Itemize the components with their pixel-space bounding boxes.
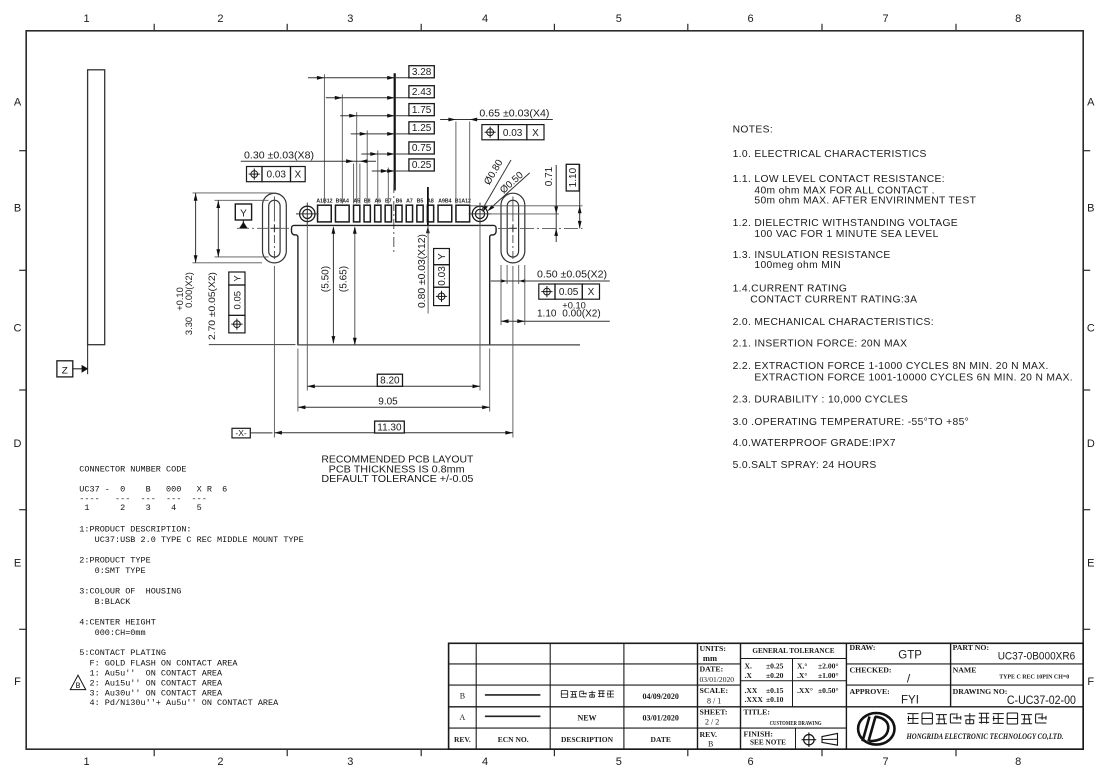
- svg-text:DATE:: DATE:: [700, 665, 724, 674]
- dimension 0.71 arrows: [554, 206, 558, 214]
- svg-text:HONGRIDA ELECTRONIC TECHNOLOGY: HONGRIDA ELECTRONIC TECHNOLOGY CO,LTD.: [906, 732, 1064, 741]
- dimension 0.50 line: [491, 280, 610, 282]
- svg-text:FINISH:: FINISH:: [744, 729, 773, 738]
- shield slot left outer oval: [263, 193, 287, 263]
- svg-text:+0.10: +0.10: [175, 287, 185, 311]
- dimension 1.25 arrows: [360, 132, 368, 136]
- dimension 3.28 box: [409, 66, 434, 78]
- dimension 11.30 line: [274, 432, 513, 434]
- svg-text:Y: Y: [240, 208, 247, 219]
- tolerance table lines: [741, 658, 847, 660]
- svg-text:±0.50°: ±0.50°: [818, 686, 839, 695]
- svg-text:0.80 ±0.03(X12): 0.80 ±0.03(X12): [417, 234, 428, 308]
- dimension 8.20 line: [307, 385, 480, 387]
- dimension 1.10 arrows: [578, 206, 582, 214]
- svg-text:ECN NO.: ECN NO.: [498, 735, 529, 744]
- finish target symbol: [804, 735, 814, 745]
- dimension 1.75 arrows: [349, 114, 357, 118]
- svg-text:±1.00°: ±1.00°: [818, 671, 839, 680]
- svg-text:5:CONTACT PLATING: 5:CONTACT PLATING: [79, 648, 166, 658]
- svg-text:2.0. MECHANICAL CHARACTERISTIC: 2.0. MECHANICAL CHARACTERISTICS:: [733, 317, 934, 328]
- dimension 9.05 extension lines: [297, 349, 299, 412]
- svg-text:CUSTOMER DRAWING: CUSTOMER DRAWING: [770, 720, 822, 727]
- svg-text:0.00(X2): 0.00(X2): [184, 272, 194, 308]
- svg-text:REV.: REV.: [700, 730, 717, 739]
- svg-text:2.3. DURABILITY : 10,000 CYCLE: 2.3. DURABILITY : 10,000 CYCLES: [733, 394, 909, 405]
- dimension 0.80 leader line: [427, 226, 429, 314]
- svg-text:±0.10: ±0.10: [766, 695, 784, 704]
- revision flag triangle B: [70, 675, 85, 689]
- svg-text:2:PRODUCT TYPE: 2:PRODUCT TYPE: [79, 555, 150, 565]
- title block horizontal lines: [449, 663, 741, 665]
- svg-text:B: B: [14, 203, 21, 215]
- svg-text:1:PRODUCT DESCRIPTION:: 1:PRODUCT DESCRIPTION:: [79, 525, 191, 535]
- dimension 0.25 box: [409, 159, 434, 171]
- svg-text:B: B: [76, 682, 81, 691]
- svg-text:NEW: NEW: [577, 714, 596, 723]
- svg-text:A: A: [1087, 97, 1095, 109]
- svg-text:F: F: [14, 676, 21, 688]
- svg-text:F: GOLD FLASH ON CONTACT AREA: F: GOLD FLASH ON CONTACT AREA: [79, 659, 238, 669]
- pad A7: [406, 205, 412, 222]
- svg-text:2.2. EXTRACTION FORCE 1-1000 C: 2.2. EXTRACTION FORCE 1-1000 CYCLES 8N M…: [733, 361, 1049, 372]
- svg-text:B: B: [460, 691, 465, 700]
- svg-text:-X-: -X-: [235, 428, 247, 438]
- svg-text:0.03: 0.03: [503, 128, 523, 139]
- svg-text:2.70 ±0.05(X2): 2.70 ±0.05(X2): [207, 272, 217, 340]
- svg-text:D: D: [1087, 438, 1095, 450]
- pad B6: [396, 205, 402, 222]
- dimension 0.25 extension line: [387, 168, 389, 204]
- dimension 0.30 line: [241, 160, 376, 162]
- svg-text:5: 5: [616, 13, 622, 25]
- dimension 0.65 line: [440, 119, 553, 121]
- dimension 5.65 line: [354, 228, 356, 345]
- pad A5: [354, 205, 360, 222]
- svg-text:E: E: [14, 558, 21, 570]
- svg-text:(5.65): (5.65): [339, 266, 350, 292]
- slot outer edge extension lines: [500, 265, 502, 325]
- svg-text:3: 3: [347, 756, 353, 768]
- mounting hole right pad circle: [472, 206, 487, 221]
- svg-text:2.43: 2.43: [412, 87, 432, 98]
- svg-text:X: X: [295, 170, 302, 181]
- shield slot right outer oval: [501, 193, 525, 263]
- pad A6: [375, 205, 381, 222]
- dimension 2.70 line: [217, 200, 219, 257]
- dimension 3.28 arrows: [317, 76, 325, 80]
- dimension 8.20 box: [377, 374, 402, 386]
- dimension 0.75 extension line: [377, 151, 379, 204]
- datum Z leader: [73, 368, 82, 370]
- svg-text:3.30: 3.30: [184, 317, 194, 335]
- svg-text:B1A12: B1A12: [455, 199, 471, 205]
- mounting hole left pad circle: [300, 206, 315, 221]
- svg-text:F: F: [1087, 676, 1094, 688]
- svg-text:5: 5: [616, 756, 622, 768]
- svg-text:1.10: 1.10: [568, 167, 579, 187]
- svg-text:GENERAL TOLERANCE: GENERAL TOLERANCE: [752, 647, 834, 655]
- svg-text:Z: Z: [62, 365, 68, 377]
- svg-text:000:CH=0mm: 000:CH=0mm: [79, 628, 145, 638]
- svg-text:B: B: [1087, 203, 1094, 215]
- dimension 3.28 extension line: [323, 74, 325, 203]
- hole callout arrows: [483, 205, 488, 212]
- svg-text:DESCRIPTION: DESCRIPTION: [561, 735, 614, 744]
- dimension 0.30 arrows: [346, 159, 354, 163]
- svg-text:1.4.CURRENT RATING: 1.4.CURRENT RATING: [733, 284, 848, 295]
- svg-text:.XX°: .XX°: [797, 686, 813, 695]
- pad B7: [385, 205, 391, 222]
- footprint vertical centerline: [393, 183, 395, 254]
- svg-text:APPROVE:: APPROVE:: [850, 687, 890, 696]
- datum -X- box: [232, 428, 250, 438]
- dimension 11.30 arrows: [274, 431, 282, 435]
- svg-text:4:CENTER HEIGHT: 4:CENTER HEIGHT: [79, 617, 156, 627]
- slot horizontal centerline right: [498, 227, 583, 229]
- svg-text:C: C: [1087, 323, 1095, 335]
- dimension 0.25 line: [372, 170, 409, 172]
- svg-text:E: E: [1087, 558, 1094, 570]
- dimension 3.30 line: [195, 193, 197, 263]
- dimension 0.25 arrows: [381, 169, 389, 173]
- dimension 0.80 arrow: [426, 226, 430, 234]
- datum Y stem: [242, 220, 244, 224]
- svg-text:NOTES:: NOTES:: [733, 124, 773, 135]
- svg-text:B5: B5: [417, 199, 424, 205]
- pad B1A12: [456, 205, 470, 222]
- zone ticks bottom: [153, 749, 155, 756]
- finish cone symbol: [822, 733, 838, 745]
- dimension 9.05 line: [298, 406, 490, 408]
- company logo ellipse: [858, 713, 894, 745]
- company logo monogram: [863, 717, 870, 742]
- dimension 1.10 bottom line: [501, 320, 610, 322]
- dimension 5.50 arrows: [332, 226, 336, 234]
- dimension 2.43 line: [326, 97, 409, 99]
- svg-text:DEFAULT TOLERANCE +/-0.05: DEFAULT TOLERANCE +/-0.05: [321, 474, 473, 485]
- side view PCB rectangle: [88, 70, 105, 345]
- dimension 8.20 extension lines: [306, 224, 308, 391]
- dimension 1.75 line: [340, 115, 409, 117]
- svg-text:B:BLACK: B:BLACK: [79, 597, 131, 607]
- company name chinese: [908, 714, 919, 724]
- dimension 0.65 position frame: [482, 125, 499, 140]
- svg-text:C: C: [14, 323, 22, 335]
- shield slot left center cross: [270, 227, 278, 229]
- svg-text:DRAWING NO:: DRAWING NO:: [953, 687, 1008, 696]
- dimension 1.25 box: [409, 122, 434, 134]
- dimension 0.50 arrows: [501, 279, 508, 283]
- svg-text:4: 4: [482, 756, 488, 768]
- shield slot left vertical centerline: [273, 197, 275, 222]
- dimension 1.75 extension line: [356, 112, 358, 203]
- svg-text:2: 2: [217, 13, 223, 25]
- mounting hole left drill circle: [303, 209, 312, 218]
- svg-text:UC37-0B000XR6: UC37-0B000XR6: [998, 651, 1075, 663]
- dimension 2.70 extension lines: [215, 199, 269, 201]
- svg-text:EXTRACTION FORCE 1001-10000 CY: EXTRACTION FORCE 1001-10000 CYCLES 6N MI…: [754, 372, 1073, 383]
- svg-text:DRAW:: DRAW:: [850, 643, 876, 652]
- svg-text:9.05: 9.05: [378, 396, 398, 407]
- svg-text:4: Pd/Ni30u''+ Au5u'' ON CONTA: 4: Pd/Ni30u''+ Au5u'' ON CONTACT AREA: [79, 698, 279, 708]
- svg-text:2: Au15u'' ON CONTACT AREA: 2: Au15u'' ON CONTACT AREA: [79, 678, 223, 688]
- datum Z triangle: [82, 365, 89, 373]
- dimension 11.30 box: [375, 421, 405, 433]
- svg-text:.XX: .XX: [745, 686, 758, 695]
- dimension 1.10 bottom arrows: [501, 319, 509, 323]
- svg-text:±0.20: ±0.20: [766, 671, 784, 680]
- finish symbol cell divider: [795, 728, 797, 749]
- pad A1B12: [318, 205, 332, 222]
- svg-text:8 / 1: 8 / 1: [707, 696, 721, 705]
- svg-text:CONNECTOR NUMBER CODE: CONNECTOR NUMBER CODE: [79, 465, 186, 475]
- dimension 2.43 arrows: [335, 96, 343, 100]
- dimension 0.75 line: [361, 153, 409, 155]
- zone ticks right: [1083, 150, 1090, 152]
- svg-text:04/09/2020: 04/09/2020: [642, 692, 678, 701]
- svg-text:SEE NOTE: SEE NOTE: [750, 739, 786, 747]
- svg-text:100 VAC FOR 1 MINUTE SEA LEVEL: 100 VAC FOR 1 MINUTE SEA LEVEL: [754, 229, 938, 240]
- shield slot right drill oval: [507, 200, 518, 257]
- svg-text:GTP: GTP: [898, 650, 922, 662]
- dimension 11.30 extension lines: [273, 266, 275, 438]
- svg-text:Y: Y: [233, 275, 244, 282]
- svg-text:0.05: 0.05: [559, 287, 579, 298]
- svg-text:NAME: NAME: [953, 666, 977, 675]
- svg-text:1: Au5u'' ON CONTACT AREA: 1: Au5u'' ON CONTACT AREA: [79, 669, 223, 679]
- svg-text:1: 1: [84, 756, 90, 768]
- svg-text:0.30 ±0.03(X8): 0.30 ±0.03(X8): [244, 150, 314, 161]
- dimension 1.25 line: [351, 133, 409, 135]
- svg-text:.X: .X: [745, 671, 753, 680]
- dimension 8.20 arrows: [307, 384, 315, 388]
- side view datum extension line: [87, 345, 89, 375]
- svg-text:0.25: 0.25: [412, 160, 432, 171]
- svg-text:50m ohm MAX. AFTER ENVIRINMENT: 50m ohm MAX. AFTER ENVIRINMENT TEST: [754, 196, 976, 207]
- dimension 0.75 arrows: [370, 152, 378, 156]
- svg-text:0.00(X2): 0.00(X2): [562, 309, 600, 320]
- svg-text:.X°: .X°: [797, 671, 807, 680]
- dimension 1.75 box: [409, 104, 434, 116]
- zone ticks left: [19, 150, 26, 152]
- svg-text:1 2 3 4 5: 1 2 3 4 5: [79, 503, 201, 513]
- svg-text:±0.25: ±0.25: [766, 662, 784, 671]
- dimension 0.30 position frame: [247, 167, 263, 182]
- svg-text:X: X: [588, 287, 595, 298]
- svg-text:2: 2: [217, 756, 223, 768]
- svg-text:A9B4: A9B4: [438, 199, 451, 205]
- svg-text:UC37 - 0 B 000 X R 6: UC37 - 0 B 000 X R 6: [79, 485, 227, 495]
- dimension 2.70 arrows: [216, 201, 220, 209]
- dimension 9.05 arrows: [298, 405, 306, 409]
- dimension 5.65 arrows: [353, 226, 357, 234]
- svg-text:3: 3: [347, 13, 353, 25]
- svg-text:11.30: 11.30: [377, 422, 402, 433]
- svg-text:6: 6: [748, 756, 754, 768]
- svg-text:4.0.WATERPROOF GRADE:IPX7: 4.0.WATERPROOF GRADE:IPX7: [733, 438, 896, 449]
- slot inner edge extension lines: [506, 265, 508, 284]
- svg-text:B: B: [708, 740, 713, 749]
- dimension 1.10 line: [579, 164, 581, 228]
- svg-text:0:SMT TYPE: 0:SMT TYPE: [79, 566, 145, 576]
- svg-text:±0.15: ±0.15: [766, 686, 784, 695]
- dimension 2.43 box: [409, 86, 434, 98]
- dimension 1.10 box: [566, 164, 579, 191]
- shield slot right center cross: [509, 227, 517, 229]
- datum Y box: [235, 204, 251, 220]
- svg-text:1.75: 1.75: [412, 105, 432, 116]
- svg-text:0.65 ±0.03(X4): 0.65 ±0.03(X4): [479, 109, 549, 120]
- svg-text:C-UC37-02-00: C-UC37-02-00: [1007, 695, 1076, 707]
- pad top edge extension line: [470, 205, 583, 207]
- svg-text:X.°: X.°: [797, 662, 807, 671]
- dimension 3.30 extension lines: [193, 192, 277, 194]
- dimension 0.75 box: [409, 142, 434, 154]
- dimension 5.50 line: [332, 228, 334, 344]
- svg-text:DATE: DATE: [651, 735, 671, 744]
- dimension 0.65 arrows: [448, 118, 456, 122]
- svg-text:4: 4: [482, 13, 488, 25]
- title block vertical lines: [475, 643, 477, 749]
- svg-text:1.10: 1.10: [537, 309, 557, 320]
- dimension 2.43 extension line: [341, 94, 343, 203]
- svg-text:7: 7: [882, 756, 888, 768]
- svg-text:UC37:USB 2.0 TYPE C REC MIDDLE: UC37:USB 2.0 TYPE C REC MIDDLE MOUNT TYP…: [79, 535, 303, 545]
- svg-text:1.25: 1.25: [412, 123, 432, 134]
- svg-text:0.03: 0.03: [437, 266, 448, 286]
- dimension 3.28 line: [308, 77, 409, 79]
- svg-text:0.75: 0.75: [412, 143, 432, 154]
- dimension 3.30 arrows: [194, 193, 198, 201]
- svg-text:CONTACT CURRENT RATING:3A: CONTACT CURRENT RATING:3A: [750, 295, 917, 306]
- pad B5: [417, 205, 423, 222]
- dimension 0.50 position frame: [539, 284, 555, 299]
- pad B8: [364, 205, 370, 222]
- svg-text:3: Au30u'' ON CONTACT AREA: 3: Au30u'' ON CONTACT AREA: [79, 688, 223, 698]
- svg-text:03/01/2020: 03/01/2020: [642, 714, 678, 723]
- svg-text:1.1. LOW LEVEL CONTACT RESISTA: 1.1. LOW LEVEL CONTACT RESISTANCE:: [733, 174, 945, 185]
- datum edge thick line: [394, 73, 396, 190]
- mounting hole right crosshair: [469, 213, 492, 215]
- hole callout leader lines: [482, 160, 512, 211]
- svg-text:1.2. DIELECTRIC WITHSTANDING V: 1.2. DIELECTRIC WITHSTANDING VOLTAGE: [733, 218, 958, 229]
- svg-text:TITLE:: TITLE:: [744, 707, 770, 716]
- dimension 0.71 line: [555, 165, 557, 242]
- PCB cutout outline: [291, 225, 493, 345]
- svg-text:100meg ohm MIN: 100meg ohm MIN: [754, 260, 841, 271]
- hole center extension line: [489, 213, 560, 215]
- svg-text:REV.: REV.: [454, 735, 471, 744]
- dimension 2.70 position frame: [229, 272, 245, 285]
- datum Y triangle: [239, 222, 247, 229]
- svg-text:0.50 ±0.05(X2): 0.50 ±0.05(X2): [537, 269, 607, 280]
- svg-text:B6: B6: [396, 199, 403, 205]
- svg-text:.XXX: .XXX: [745, 695, 764, 704]
- svg-text:(5.50): (5.50): [321, 266, 332, 292]
- svg-text:2.1. INSERTION FORCE: 20N MAX: 2.1. INSERTION FORCE: 20N MAX: [733, 339, 908, 350]
- svg-text:5.0.SALT SPRAY: 24 HOURS: 5.0.SALT SPRAY: 24 HOURS: [733, 460, 877, 471]
- svg-text:CHECKED:: CHECKED:: [850, 666, 892, 675]
- dimension 0.80 position frame: [434, 249, 450, 265]
- svg-text:2 / 2: 2 / 2: [705, 718, 719, 727]
- svg-text:03/01/2020: 03/01/2020: [700, 675, 735, 684]
- svg-text:0.03: 0.03: [267, 170, 287, 181]
- zone ticks top: [153, 24, 155, 31]
- svg-text:SHEET:: SHEET:: [700, 707, 728, 716]
- svg-text:TYPE C REC 10PIN CH=0: TYPE C REC 10PIN CH=0: [999, 674, 1069, 681]
- svg-text:SCALE:: SCALE:: [700, 686, 729, 695]
- svg-text:8: 8: [1015, 13, 1021, 25]
- svg-text:0.71: 0.71: [544, 166, 555, 186]
- svg-text:3.28: 3.28: [412, 67, 432, 78]
- slot horizontal centerline left: [237, 227, 291, 229]
- dimension 1.25 extension line: [366, 130, 368, 203]
- svg-text:X: X: [532, 128, 539, 139]
- mounting hole left crosshair: [296, 213, 319, 215]
- svg-text:D: D: [14, 438, 22, 450]
- svg-text:6: 6: [748, 13, 754, 25]
- shield slot left drill oval: [269, 200, 280, 257]
- svg-text:1.0. ELECTRICAL CHARACTERISTIC: 1.0. ELECTRICAL CHARACTERISTICS: [733, 149, 927, 160]
- pad B9A4: [335, 205, 349, 222]
- datum -X- leader: [250, 432, 272, 434]
- dimension 0.65 extension lines: [455, 122, 457, 204]
- dimension 0.30 extension lines: [353, 164, 355, 204]
- svg-text:3.0 .OPERATING TEMPERATURE: -5: 3.0 .OPERATING TEMPERATURE: -55°TO +85°: [733, 417, 970, 428]
- svg-text:mm: mm: [703, 653, 717, 663]
- svg-text:8: 8: [1015, 756, 1021, 768]
- svg-text:A7: A7: [406, 199, 413, 205]
- pad A8: [427, 205, 433, 222]
- svg-text:1: 1: [84, 13, 90, 25]
- svg-text:PART NO:: PART NO:: [953, 643, 989, 652]
- svg-text:8.20: 8.20: [380, 376, 400, 387]
- shield slot right vertical centerline: [512, 197, 514, 222]
- mounting hole right drill circle: [475, 209, 484, 218]
- svg-text:0.05: 0.05: [233, 291, 244, 310]
- pad A9B4: [438, 205, 452, 222]
- dimension 0.80 extension line through pad: [427, 187, 429, 225]
- svg-text:Y: Y: [437, 253, 448, 260]
- svg-text:3:COLOUR OF HOUSING: 3:COLOUR OF HOUSING: [79, 586, 181, 596]
- svg-text:A: A: [14, 97, 22, 109]
- svg-text:UNITS:: UNITS:: [700, 644, 726, 653]
- svg-text:±2.00°: ±2.00°: [818, 662, 839, 671]
- PCB edge line: [209, 344, 296, 346]
- svg-text:A: A: [460, 713, 466, 722]
- datum Z box: [57, 361, 73, 377]
- svg-text:X.: X.: [745, 662, 752, 671]
- svg-text:7: 7: [882, 13, 888, 25]
- svg-text:FYI: FYI: [901, 694, 919, 706]
- title block outer border: [449, 643, 1084, 749]
